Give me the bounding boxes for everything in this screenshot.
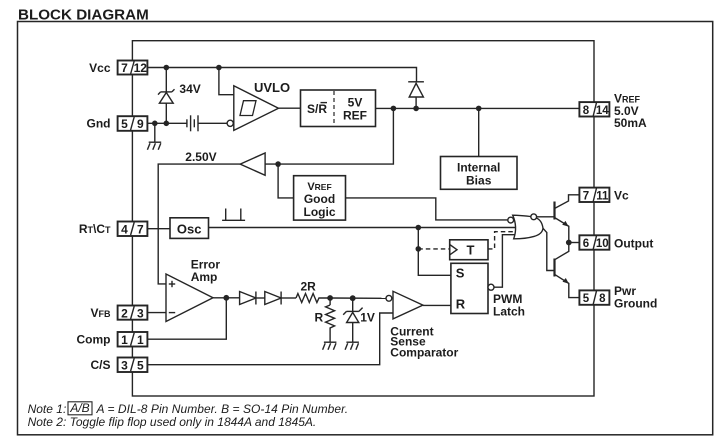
node diode junction <box>413 106 419 112</box>
block VREF Good Logic <box>294 176 346 220</box>
ground symbol below Gnd <box>147 123 161 150</box>
svg-text:14: 14 <box>596 105 609 117</box>
svg-text:Note 1:: Note 1: <box>28 402 67 416</box>
pin box VFB 2/3 <box>118 306 148 321</box>
svg-text:3: 3 <box>121 358 128 372</box>
svg-text:C/S: C/S <box>90 358 110 372</box>
wire UVLO out to S/R box <box>279 107 301 109</box>
clock waveform glyph <box>222 209 245 221</box>
svg-text:7: 7 <box>583 190 589 202</box>
wire VREF rail <box>376 107 580 109</box>
svg-text:8: 8 <box>583 105 590 117</box>
hysteresis glyph <box>240 101 256 116</box>
transistor Q2 lower <box>555 243 580 298</box>
svg-text:11: 11 <box>596 190 609 202</box>
zener diode 34V <box>158 68 175 124</box>
wire Vcc rail <box>147 68 416 82</box>
pin box PwrGround 5/8 <box>579 290 609 305</box>
wire output to pin <box>569 242 580 244</box>
svg-text:REF: REF <box>343 109 367 123</box>
svg-text:1: 1 <box>137 333 144 347</box>
op-amp Error Amp <box>166 274 213 322</box>
node 5VREF output junction <box>391 106 397 112</box>
pin box C/S 3/5 <box>118 358 148 373</box>
wire error amp output <box>213 297 240 299</box>
svg-text:UVLO: UVLO <box>254 80 290 95</box>
flip-flop T <box>450 240 488 260</box>
svg-text:S: S <box>456 266 465 281</box>
node toggle branch <box>416 246 422 252</box>
wire RtCt to Osc <box>147 228 170 230</box>
resistor 2R <box>296 294 330 303</box>
pin box Output 6/10 <box>579 235 609 250</box>
wire to VREF good logic <box>278 164 294 198</box>
transistor Q1 upper <box>555 195 580 243</box>
ground below R <box>323 342 337 350</box>
svg-text:2.50V: 2.50V <box>185 150 216 164</box>
svg-text:VFB: VFB <box>90 306 111 320</box>
pin box Vc 7/11 <box>579 188 609 203</box>
wire 2.5V to error amp + <box>158 164 240 284</box>
svg-text:Vcc: Vcc <box>89 61 111 75</box>
svg-text:A/B: A/B <box>69 401 89 415</box>
svg-text:Vc: Vc <box>614 189 629 203</box>
svg-text:8: 8 <box>599 293 606 305</box>
node Gnd ground junction <box>152 121 158 127</box>
wire Gnd rail <box>147 122 187 124</box>
wire comparator out to latch R <box>423 304 451 306</box>
svg-text:Ground: Ground <box>614 297 657 311</box>
block Internal Bias <box>441 108 518 189</box>
svg-text:3: 3 <box>137 306 144 320</box>
note 1 <box>28 401 348 416</box>
svg-text:Comp: Comp <box>77 333 111 347</box>
wire clock down to latch S <box>418 228 451 276</box>
node 2.5V junction <box>275 161 281 167</box>
svg-text:Logic: Logic <box>304 205 336 219</box>
svg-text:10: 10 <box>596 238 609 250</box>
svg-text:Good: Good <box>304 192 335 206</box>
gate output bubble <box>531 214 537 220</box>
wire to comparator input <box>330 297 386 299</box>
block S/R 5V REF <box>301 90 376 127</box>
svg-text:Amp: Amp <box>191 270 218 284</box>
svg-text:Output: Output <box>614 236 653 250</box>
svg-text:Internal: Internal <box>457 161 500 175</box>
wire gate apex to lower base <box>543 228 555 270</box>
gate input bubble <box>508 217 514 223</box>
wire dashed T out to OR gate <box>488 232 515 249</box>
svg-text:1: 1 <box>121 333 128 347</box>
block Osc <box>170 218 209 239</box>
svg-text:Note 2: Toggle flip flop used: Note 2: Toggle flip flop used only in 18… <box>28 415 317 429</box>
wire latch out to OR gate <box>494 235 515 288</box>
wire VREF good to OR gate <box>346 198 508 220</box>
gate OR output driver <box>508 214 543 239</box>
op-amp Current Sense Comparator <box>386 291 423 319</box>
svg-text:Latch: Latch <box>493 305 525 319</box>
node Vcc-UVLO junction <box>216 65 222 71</box>
wire 5VREF to 2.5V divider <box>265 108 393 164</box>
wire Osc clock line <box>209 227 518 229</box>
node error amp output junction <box>223 295 229 301</box>
node output junction <box>566 240 572 246</box>
svg-text:7: 7 <box>137 222 144 236</box>
wire C/S to comparator <box>147 313 393 365</box>
svg-text:A = DIL-8 Pin Number. B = SO-1: A = DIL-8 Pin Number. B = SO-14 Pin Numb… <box>96 402 349 416</box>
svg-text:2R: 2R <box>301 280 317 294</box>
wire gate top out to upper base <box>537 216 555 218</box>
node Gnd-zener junction <box>164 121 170 127</box>
svg-text:RT\CT: RT\CT <box>79 222 111 236</box>
diode Vcc-VREF <box>408 82 424 109</box>
battery offset symbol <box>187 115 227 131</box>
pin box VREF 8/14 <box>579 102 609 117</box>
ground below 1V zener <box>345 342 359 350</box>
svg-text:R: R <box>456 297 466 312</box>
svg-text:5: 5 <box>137 358 144 372</box>
op-amp UVLO comparator <box>227 86 278 131</box>
svg-text:Comparator: Comparator <box>390 346 458 360</box>
svg-text:1V: 1V <box>360 311 375 325</box>
wire dashed to T flipflop <box>418 248 449 250</box>
IC boundary box <box>132 41 594 396</box>
pin box Gnd 5/9 <box>118 116 148 131</box>
wire Vcc to UVLO input <box>219 68 234 95</box>
svg-text:T: T <box>467 243 475 258</box>
buffer 2.50V <box>240 153 265 175</box>
svg-text:2: 2 <box>121 306 128 320</box>
wire VFB to error amp - <box>147 312 166 314</box>
svg-text:9: 9 <box>137 117 144 131</box>
node internal bias junction <box>476 106 482 112</box>
svg-text:Osc: Osc <box>177 222 202 237</box>
node zener junction <box>350 295 356 301</box>
node clock branch <box>416 225 422 231</box>
latch output bubble <box>488 284 494 290</box>
svg-text:Bias: Bias <box>466 174 492 188</box>
resistor R vertical <box>326 298 335 342</box>
svg-text:Gnd: Gnd <box>87 117 111 131</box>
diode D1 <box>240 292 265 305</box>
wire Comp to error amp output <box>147 298 226 339</box>
svg-text:34V: 34V <box>179 82 200 96</box>
svg-text:5: 5 <box>583 293 590 305</box>
svg-text:6: 6 <box>583 238 589 250</box>
svg-text:4: 4 <box>121 222 128 236</box>
node Vcc-zener junction <box>164 65 170 71</box>
svg-text:12: 12 <box>134 61 148 75</box>
zener diode 1V <box>343 298 362 342</box>
pin box Comp 1/1 <box>118 332 148 347</box>
svg-text:7: 7 <box>121 61 128 75</box>
svg-text:50mA: 50mA <box>614 116 647 130</box>
svg-text:5V: 5V <box>348 96 363 110</box>
svg-text:R: R <box>315 311 324 325</box>
UVLO input bubble <box>227 120 233 126</box>
comparator input bubble <box>386 295 392 301</box>
node R junction <box>327 295 333 301</box>
svg-text:S/R: S/R <box>307 102 327 116</box>
pin box Rt/Ct 4/7 <box>118 222 148 237</box>
svg-text:5: 5 <box>121 117 128 131</box>
diode D2 <box>265 292 296 305</box>
latch PWM S/R <box>451 263 494 313</box>
pin box Vcc 7/12 <box>118 61 148 76</box>
